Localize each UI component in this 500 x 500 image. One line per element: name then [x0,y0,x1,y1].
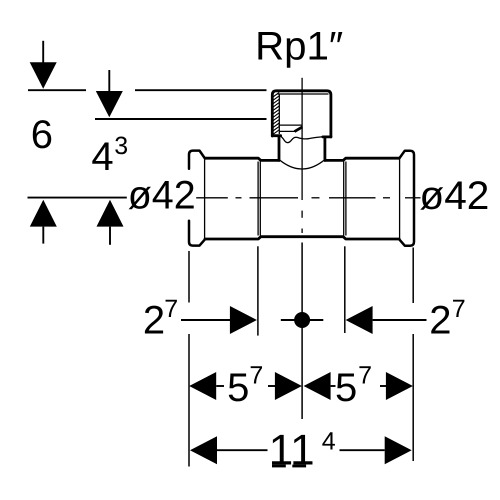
svg-text:2: 2 [429,298,451,342]
svg-text:ø42: ø42 [419,174,489,218]
svg-text:ø42: ø42 [128,174,196,218]
svg-text:5: 5 [227,366,249,410]
svg-text:7: 7 [249,362,263,390]
svg-text:6: 6 [31,113,53,157]
svg-text:Rp1″: Rp1″ [255,24,343,68]
svg-text:4: 4 [91,135,113,179]
svg-text:2: 2 [143,298,165,342]
svg-text:4: 4 [322,428,336,456]
svg-text:3: 3 [114,132,128,160]
svg-text:7: 7 [452,295,466,323]
svg-text:7: 7 [164,295,178,323]
svg-text:7: 7 [358,362,372,390]
svg-text:5: 5 [335,366,357,410]
